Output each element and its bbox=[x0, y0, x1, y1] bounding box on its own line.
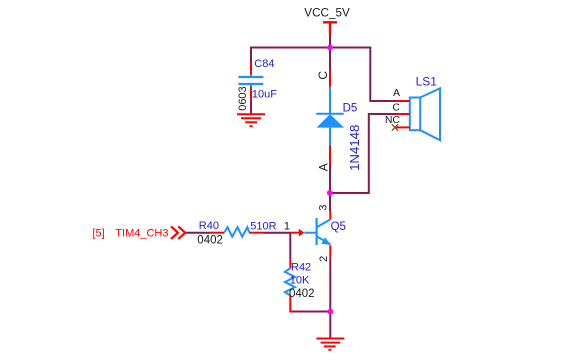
svg-text:D5: D5 bbox=[343, 103, 358, 115]
wire Q5 emitter to junction 3 bbox=[329, 258, 331, 311]
svg-text:R42: R42 bbox=[291, 261, 311, 273]
svg-text:10uF: 10uF bbox=[252, 89, 277, 101]
svg-text:0402: 0402 bbox=[289, 288, 315, 300]
ground symbol bottom bbox=[316, 339, 344, 350]
wire junction to D5 cathode bbox=[329, 48, 331, 70]
wire C84 bottom to ground bbox=[250, 100, 252, 112]
speaker LS1 pin A bbox=[396, 100, 410, 102]
junction dot J3 bbox=[327, 309, 333, 315]
wire D5 anode to junction 2 bbox=[329, 165, 331, 193]
wire junction 2 to Q5 collector bbox=[329, 193, 331, 211]
speaker LS1 pin NC bbox=[395, 126, 410, 128]
svg-text:TIM4_CH3: TIM4_CH3 bbox=[115, 227, 168, 239]
speaker LS1 pin C bbox=[396, 113, 410, 115]
svg-text:VCC_5V: VCC_5V bbox=[304, 6, 350, 19]
capacitor C84 plates bbox=[238, 75, 263, 87]
speaker LS1 body bbox=[410, 88, 440, 140]
svg-text:C: C bbox=[392, 101, 400, 113]
svg-text:1: 1 bbox=[284, 220, 290, 232]
transistor Q5 body bbox=[304, 218, 330, 245]
ground symbol below C84 bbox=[237, 112, 265, 126]
svg-text:1N4148: 1N4148 bbox=[347, 125, 362, 171]
diode D5 pin cathode bbox=[329, 69, 331, 87]
svg-text:R40: R40 bbox=[199, 220, 219, 232]
junction dot J2 bbox=[327, 190, 333, 196]
wire R40 to Q5 base corner bbox=[263, 232, 290, 234]
svg-text:3: 3 bbox=[317, 205, 329, 211]
resistor R40 pin 1 bbox=[211, 232, 225, 234]
svg-text:510R: 510R bbox=[250, 220, 276, 232]
wire top rail right to LS1 pin A bbox=[330, 48, 396, 102]
svg-text:LS1: LS1 bbox=[416, 75, 438, 89]
svg-text:C: C bbox=[316, 71, 330, 80]
transistor Q5 base pin with input arrow bbox=[290, 232, 299, 234]
capacitor C84 pin 1 bbox=[250, 61, 252, 75]
resistor R40 body bbox=[224, 227, 249, 237]
diode D5 pin anode bbox=[329, 145, 331, 165]
capacitor C84 pin 2 bbox=[250, 87, 252, 100]
wire junction 2 to LS1 pin C bbox=[330, 114, 396, 193]
svg-text:10K: 10K bbox=[290, 274, 310, 286]
resistor R42 pin 1 bbox=[289, 260, 291, 268]
wire top rail left and C84 drop bbox=[251, 48, 330, 62]
svg-text:A: A bbox=[393, 87, 400, 99]
wire input to R40 bbox=[186, 232, 211, 234]
svg-text:Q5: Q5 bbox=[331, 221, 346, 233]
resistor R40 pin 2 bbox=[249, 232, 263, 234]
svg-text:2: 2 bbox=[318, 256, 330, 262]
junction dot J1 bbox=[327, 45, 333, 51]
transistor Q5 collector pin bbox=[329, 211, 331, 220]
diode D5 body bbox=[316, 87, 344, 146]
resistor R42 body bbox=[285, 268, 295, 295]
off-sheet connector TIM4_CH3 bbox=[171, 226, 185, 239]
wire junction 3 to ground bbox=[329, 312, 331, 338]
power port VCC_5V bar bbox=[323, 22, 337, 34]
svg-text:A: A bbox=[316, 163, 330, 171]
resistor R42 pin 2 bbox=[290, 296, 292, 312]
svg-text:0603: 0603 bbox=[237, 86, 249, 110]
no connect cross on NC pin bbox=[392, 124, 398, 130]
svg-text:0402: 0402 bbox=[197, 234, 223, 246]
svg-text:C84: C84 bbox=[254, 58, 274, 70]
transistor Q5 emitter pin bbox=[329, 245, 331, 258]
wire VCC stem to junction bbox=[329, 35, 331, 48]
wire R42 bottom to junction 3 bbox=[292, 311, 330, 313]
wire corner down to R42 bbox=[289, 233, 291, 260]
svg-text:[5]: [5] bbox=[92, 227, 104, 239]
